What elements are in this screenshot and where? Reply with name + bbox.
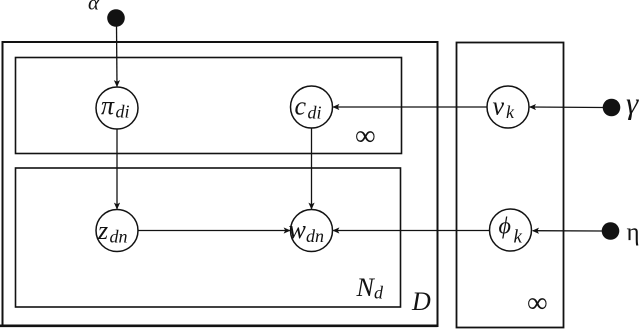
- plate infinity (right): [457, 43, 564, 328]
- svg-text:dn: dn: [306, 226, 324, 246]
- plate D bottom edge (heavier scan line): [0, 324, 438, 327]
- wire v_k to c_di: [333, 106, 487, 108]
- svg-text:z: z: [97, 216, 108, 245]
- svg-text:N: N: [356, 273, 376, 302]
- dot alpha (observed hyperparameter): [107, 9, 125, 27]
- node w_dn: [289, 210, 333, 252]
- node pi_di: [96, 87, 138, 129]
- svg-text:γ: γ: [626, 86, 639, 121]
- svg-text:w: w: [289, 215, 307, 244]
- wire z_dn to w_dn: [138, 230, 290, 232]
- wire gamma to v_k: [530, 106, 603, 109]
- svg-text:π: π: [101, 91, 115, 120]
- svg-text:D: D: [411, 287, 431, 316]
- wire pi_di to z_dn: [116, 129, 118, 209]
- dot gamma: [603, 99, 621, 117]
- node z_dn: [96, 210, 138, 252]
- svg-text:∞: ∞: [527, 287, 548, 319]
- node c_di: [291, 86, 333, 128]
- node phi_k: [490, 209, 532, 251]
- svg-text:di: di: [308, 103, 322, 123]
- plate infinity (top inner): [16, 58, 402, 154]
- svg-text:k: k: [506, 102, 515, 122]
- svg-text:∞: ∞: [355, 120, 376, 152]
- wire phi_k to w_dn: [333, 230, 489, 232]
- plate N_d (bottom inner): [16, 168, 401, 307]
- dot eta: [602, 222, 620, 240]
- svg-text:c: c: [295, 92, 307, 121]
- svg-text:d: d: [374, 283, 384, 303]
- wire alpha to pi_di: [116, 25, 119, 86]
- svg-text:dn: dn: [110, 227, 128, 247]
- svg-text:di: di: [116, 102, 130, 122]
- wire c_di to w_dn: [311, 128, 313, 209]
- svg-text:k: k: [514, 227, 523, 248]
- svg-text:v: v: [493, 92, 505, 121]
- svg-text:η: η: [627, 219, 640, 246]
- svg-text:α: α: [88, 0, 100, 15]
- wire eta to phi_k: [533, 230, 602, 232]
- plate D (outer): [3, 42, 438, 326]
- node v_k: [487, 86, 529, 128]
- svg-text:ϕ: ϕ: [499, 214, 511, 240]
